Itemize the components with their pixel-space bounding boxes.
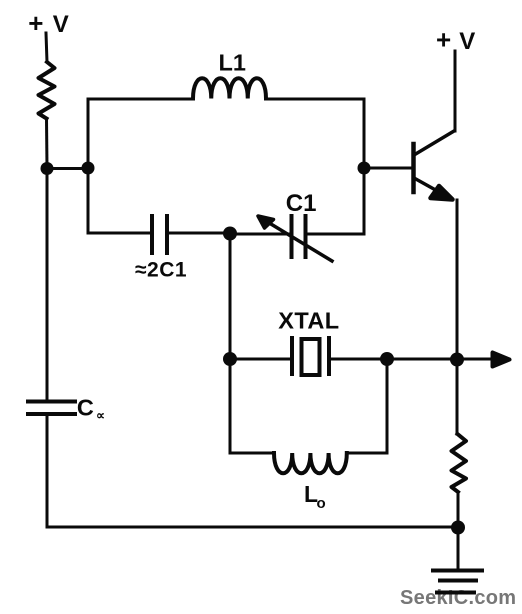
wire: [454, 51, 457, 131]
node I: [451, 521, 465, 535]
wire: [230, 359, 274, 453]
crystal XTAL: [278, 308, 339, 376]
wire: [306, 168, 364, 234]
svg-text:∝: ∝: [96, 409, 105, 423]
resistor R2: [452, 434, 467, 492]
svg-text:+: +: [28, 8, 43, 38]
resistor R1: [39, 62, 55, 119]
svg-text:V: V: [459, 28, 475, 55]
wire: [47, 416, 458, 527]
node A: [41, 162, 54, 175]
wire: [266, 99, 364, 168]
wire: [457, 527, 460, 569]
wire: [456, 200, 459, 359]
node E: [223, 227, 237, 241]
wire: [456, 359, 459, 434]
capacitor C1: [258, 190, 332, 261]
svg-text:C1: C1: [286, 190, 317, 217]
capacitor 2C1: [135, 216, 187, 282]
transistor Q1: [364, 131, 454, 200]
wire: [46, 168, 49, 400]
svg-text:≈2C1: ≈2C1: [135, 259, 187, 282]
svg-text:V: V: [53, 11, 69, 38]
wire: [88, 99, 193, 168]
svg-text:XTAL: XTAL: [278, 308, 339, 334]
wire: [46, 33, 47, 62]
wire: [47, 167, 88, 170]
node G: [380, 352, 394, 366]
node F: [223, 352, 237, 366]
power label +V left: [28, 8, 69, 38]
wire: [387, 358, 457, 361]
node H: [450, 353, 464, 367]
inductor Lo: [274, 453, 347, 512]
wire: [457, 492, 460, 527]
node C: [358, 162, 371, 175]
capacitor Cx: [28, 394, 105, 422]
svg-text:o: o: [317, 495, 326, 512]
wire: [45, 119, 49, 169]
node B: [82, 162, 95, 175]
inductor L1: [193, 78, 266, 98]
wire: [229, 233, 232, 359]
wire: [347, 359, 387, 453]
svg-text:SeekIC.com: SeekIC.com: [400, 587, 516, 609]
wire: [167, 232, 230, 235]
wire: [230, 233, 291, 236]
svg-text:L1: L1: [219, 49, 246, 75]
wire: [329, 358, 387, 361]
output arrow: [457, 353, 510, 367]
power label +V right: [436, 24, 475, 55]
svg-text:C: C: [77, 394, 94, 420]
ground: [433, 571, 482, 593]
wire: [230, 358, 292, 361]
wire: [88, 168, 152, 233]
svg-text:+: +: [436, 24, 451, 54]
